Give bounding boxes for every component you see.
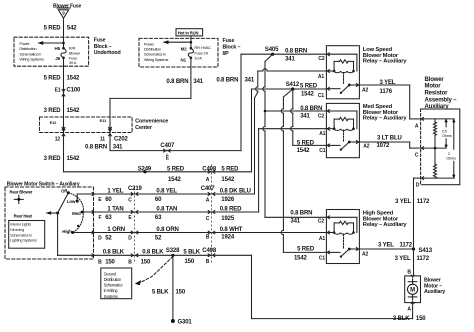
svg-text:Motor: Motor (425, 84, 442, 90)
svg-text:1542: 1542 (67, 108, 81, 114)
svg-text:1 YEL: 1 YEL (107, 188, 123, 194)
svg-text:63: 63 (105, 215, 112, 221)
svg-text:1 TAN: 1 TAN (107, 206, 123, 212)
svg-text:5 RED: 5 RED (300, 83, 318, 89)
svg-text:Schematics in: Schematics in (10, 233, 32, 237)
svg-text:C2: C2 (318, 56, 324, 62)
svg-text:E12: E12 (50, 120, 58, 125)
svg-text:10 A: 10 A (194, 55, 202, 60)
svg-text:C1: C1 (318, 93, 324, 99)
svg-text:0.8 RED: 0.8 RED (220, 206, 242, 212)
svg-text:52: 52 (105, 236, 112, 242)
svg-text:3 YEL: 3 YEL (395, 199, 411, 205)
svg-text:A: A (206, 197, 210, 203)
svg-text:Relay – Auxiliary: Relay – Auxiliary (363, 116, 408, 122)
svg-text:0.8 DK BLU: 0.8 DK BLU (220, 188, 251, 194)
svg-text:Dimming: Dimming (10, 228, 24, 232)
svg-text:1542: 1542 (67, 76, 81, 82)
svg-text:0.8 ORN: 0.8 ORN (156, 227, 178, 233)
svg-text:B: B (128, 260, 132, 266)
svg-text:0.8 BRN: 0.8 BRN (300, 106, 322, 112)
svg-text:12: 12 (55, 137, 61, 143)
svg-text:Block –: Block – (94, 44, 112, 50)
svg-text:D: D (98, 236, 102, 242)
svg-text:5 RED: 5 RED (167, 167, 185, 173)
svg-text:B: B (206, 235, 210, 241)
svg-text:150: 150 (185, 259, 195, 265)
svg-text:B: B (206, 259, 210, 265)
svg-text:Underhood: Underhood (94, 50, 121, 56)
svg-text:63: 63 (155, 215, 162, 221)
svg-text:S413: S413 (419, 248, 433, 254)
svg-text:Hot in RUN: Hot in RUN (178, 30, 199, 35)
svg-text:3 YEL: 3 YEL (395, 256, 411, 262)
svg-text:150: 150 (141, 260, 151, 266)
svg-text:Wiring Systems: Wiring Systems (19, 57, 44, 62)
svg-text:Low: Low (67, 199, 76, 204)
svg-text:1926: 1926 (221, 197, 235, 203)
svg-text:1542: 1542 (301, 92, 315, 98)
svg-text:C408: C408 (202, 248, 217, 254)
svg-text:C: C (128, 197, 132, 203)
svg-text:0.5: 0.5 (442, 129, 447, 133)
svg-text:N1: N1 (181, 57, 187, 62)
svg-text:F: F (98, 215, 101, 221)
svg-text:Blower Motor Switch – Auxiliar: Blower Motor Switch – Auxiliary (7, 182, 80, 188)
svg-text:341: 341 (113, 145, 123, 151)
svg-text:Auxiliary: Auxiliary (424, 289, 445, 295)
svg-text:Block –: Block – (223, 45, 241, 51)
svg-text:1176: 1176 (380, 89, 393, 95)
svg-text:Convenience: Convenience (135, 119, 168, 125)
svg-text:Lighting Systems: Lighting Systems (10, 239, 37, 243)
svg-text:1542: 1542 (294, 255, 308, 261)
svg-text:3 BLK: 3 BLK (393, 316, 410, 322)
svg-text:1072: 1072 (377, 143, 391, 149)
svg-text:0.8 WHT: 0.8 WHT (220, 227, 243, 233)
svg-text:0.8 BLK: 0.8 BLK (142, 250, 164, 256)
svg-text:Center: Center (135, 125, 153, 131)
svg-text:1542: 1542 (221, 177, 235, 183)
svg-text:3 LT BLU: 3 LT BLU (377, 135, 402, 141)
svg-text:2: 2 (448, 152, 450, 156)
svg-text:A1: A1 (319, 236, 325, 242)
svg-text:M2: M2 (181, 46, 188, 51)
svg-text:C202: C202 (114, 137, 129, 143)
svg-text:0.8 BRN: 0.8 BRN (85, 145, 107, 151)
svg-text:A1: A1 (319, 131, 325, 137)
svg-text:Systems: Systems (104, 294, 118, 299)
svg-text:52: 52 (155, 236, 162, 242)
svg-text:1542: 1542 (67, 156, 81, 162)
svg-text:S249: S249 (138, 167, 152, 173)
svg-text:Rear Blower: Rear Blower (10, 189, 33, 194)
svg-text:11: 11 (100, 137, 105, 143)
svg-text:341: 341 (285, 57, 295, 63)
svg-text:3 YEL: 3 YEL (380, 80, 396, 86)
svg-text:5 BLK: 5 BLK (152, 290, 169, 296)
svg-text:J6: J6 (55, 56, 60, 61)
svg-text:H5: H5 (55, 46, 61, 51)
svg-text:5 RED: 5 RED (44, 76, 62, 82)
svg-text:0.8 BRN: 0.8 BRN (166, 79, 188, 85)
svg-text:G301: G301 (178, 320, 193, 326)
svg-text:Blower: Blower (425, 77, 445, 83)
svg-text:A2: A2 (363, 144, 369, 150)
svg-text:A: A (206, 177, 210, 183)
svg-text:150: 150 (416, 316, 426, 322)
svg-text:C2: C2 (318, 219, 324, 225)
svg-text:341: 341 (290, 219, 300, 225)
svg-text:D: D (128, 236, 132, 242)
svg-text:341: 341 (300, 113, 310, 119)
svg-text:0.8 BRN: 0.8 BRN (216, 78, 238, 84)
svg-text:Interior Lights: Interior Lights (10, 223, 31, 227)
svg-text:Relay – Auxiliary: Relay – Auxiliary (363, 59, 408, 65)
svg-text:E1: E1 (55, 87, 61, 93)
svg-text:1 ORN: 1 ORN (107, 227, 125, 233)
svg-text:Off: Off (61, 188, 68, 193)
svg-text:S328: S328 (166, 248, 180, 254)
svg-text:S412: S412 (286, 82, 300, 88)
svg-text:1172: 1172 (417, 199, 430, 205)
svg-text:3 RED: 3 RED (44, 108, 62, 114)
svg-text:3 RED: 3 RED (44, 156, 62, 162)
svg-text:Schematics: Schematics (104, 283, 123, 288)
svg-text:A2: A2 (362, 251, 368, 257)
svg-text:5 RED: 5 RED (297, 141, 315, 147)
svg-text:5 BLK: 5 BLK (183, 250, 200, 256)
svg-text:C407: C407 (160, 143, 175, 149)
svg-text:Ground: Ground (104, 271, 117, 276)
svg-text:Fuse: Fuse (223, 38, 235, 44)
svg-text:542: 542 (67, 26, 77, 32)
svg-text:A: A (415, 123, 419, 129)
svg-text:Assembly –: Assembly – (425, 97, 458, 103)
svg-text:Blower Fuse: Blower Fuse (53, 4, 81, 10)
svg-text:5 RED: 5 RED (44, 26, 62, 32)
svg-text:C: C (206, 216, 210, 222)
svg-text:0.8 TAN: 0.8 TAN (156, 206, 177, 212)
svg-text:1172: 1172 (417, 256, 430, 262)
svg-text:Distribution: Distribution (104, 277, 122, 282)
svg-text:E11: E11 (100, 118, 107, 123)
svg-text:C100: C100 (67, 87, 82, 93)
svg-text:Rear Heat: Rear Heat (14, 214, 33, 219)
svg-text:C407: C407 (201, 186, 216, 192)
svg-text:60: 60 (155, 197, 162, 203)
svg-text:C2: C2 (318, 113, 324, 119)
svg-text:B: B (407, 270, 411, 276)
svg-text:1172: 1172 (400, 242, 413, 248)
svg-text:M: M (410, 288, 415, 294)
svg-text:150: 150 (176, 290, 186, 296)
svg-text:C: C (415, 152, 419, 158)
svg-text:0.8 BRN: 0.8 BRN (290, 211, 312, 217)
svg-text:S405: S405 (265, 47, 279, 53)
svg-text:5 RED: 5 RED (297, 247, 315, 253)
svg-text:A: A (407, 307, 411, 313)
svg-text:Auxiliary: Auxiliary (425, 104, 450, 110)
svg-text:Ohms: Ohms (442, 134, 452, 138)
svg-text:in Wiring: in Wiring (104, 288, 119, 293)
svg-text:0.8 BRN: 0.8 BRN (285, 48, 307, 54)
svg-text:Wiring Systems: Wiring Systems (144, 57, 169, 62)
svg-text:150: 150 (105, 260, 115, 266)
svg-text:C1: C1 (319, 255, 325, 261)
svg-text:3 YEL: 3 YEL (378, 242, 394, 248)
svg-text:C219: C219 (128, 186, 143, 192)
svg-text:Resistor: Resistor (425, 91, 449, 97)
svg-text:B: B (98, 260, 102, 266)
svg-text:Med: Med (72, 211, 81, 216)
svg-text:A1: A1 (318, 74, 324, 80)
svg-text:High: High (62, 229, 72, 234)
svg-text:341: 341 (193, 79, 203, 85)
svg-text:1542: 1542 (168, 177, 182, 183)
svg-text:Fuse: Fuse (94, 38, 106, 44)
svg-text:1924: 1924 (221, 235, 235, 241)
svg-text:1925: 1925 (221, 216, 235, 222)
svg-text:Ohms: Ohms (446, 157, 456, 161)
svg-text:0.8 YEL: 0.8 YEL (156, 188, 177, 194)
svg-text:0.8 BLK: 0.8 BLK (103, 250, 125, 256)
svg-text:Relay – Auxiliary: Relay – Auxiliary (363, 222, 408, 228)
svg-text:1542: 1542 (297, 148, 311, 154)
svg-text:341: 341 (245, 78, 255, 84)
svg-text:30 A: 30 A (69, 60, 77, 65)
svg-text:D: D (416, 182, 420, 188)
svg-text:C1: C1 (319, 148, 325, 154)
svg-text:C408: C408 (202, 167, 217, 173)
svg-text:A2: A2 (362, 87, 368, 93)
svg-text:5 RED: 5 RED (221, 167, 239, 173)
svg-text:60: 60 (105, 197, 112, 203)
svg-text:I/P: I/P (223, 51, 230, 57)
